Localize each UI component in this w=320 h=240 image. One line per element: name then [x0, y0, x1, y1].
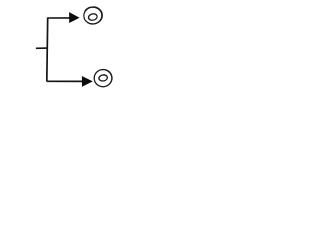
wire: left stub: [36, 47, 48, 49]
terminal T1: outer ellipse: [83, 6, 104, 26]
terminal T2: inner ellipse: [98, 74, 108, 82]
terminal T2: outer ellipse: [93, 68, 114, 88]
terminal T1: outer ellipse joint stroke: [85, 7, 91, 11]
wire: vertical trunk: [46, 18, 49, 82]
wire: top branch: [47, 17, 70, 19]
wire: bottom branch: [47, 80, 83, 82]
arrowhead: top branch: [70, 13, 79, 22]
terminal T1: inner ellipse: [88, 13, 98, 21]
arrowhead: bottom branch: [82, 77, 91, 86]
